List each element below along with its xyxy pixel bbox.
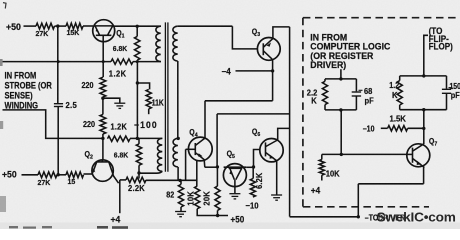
wire Q3 base drop [232, 26, 257, 49]
scan artifact left edge smudge 2 [0, 121, 3, 129]
junction base rail / RC1 [340, 153, 343, 156]
Q1 internal emitter slant with arrow [95, 26, 100, 35]
scan artifact top-left corner [3, 3, 6, 9]
transistor Q3 circle [257, 38, 280, 61]
transformer lower-left winding exit [157, 171, 163, 173]
Q3 collector arrowhead [267, 42, 271, 46]
wire RC2 bottom to node L to Q7 [423, 110, 425, 144]
wire node F to 15 [57, 174, 66, 176]
Q1 internal bar [96, 34, 112, 36]
wire runner node J to bus [217, 113, 290, 115]
junction node B (Q1 collector / 6.8K / xfmr) [136, 25, 139, 28]
transformer upper-right winding [173, 26, 178, 61]
wire node E to 11K [137, 83, 149, 89]
wire 15K to Q1 base [83, 25, 93, 27]
Q1 base chord [94, 25, 114, 27]
resistor 11K zigzag [146, 89, 151, 109]
capacitor 68pF leads [355, 79, 357, 110]
capacitor 2.5 plates [54, 104, 63, 107]
wire between 220 resistors [102, 97, 104, 115]
wire Q4 base riser [185, 149, 187, 180]
Q6 internal bar [265, 142, 267, 156]
resistor 27K (lower) zigzag [38, 172, 57, 178]
junction rail/Q1-emitter [102, 60, 105, 63]
transformer core line 1 [164, 22, 166, 171]
wire collector bus vertical [289, 27, 291, 217]
junction node C (220/Q2/input return) [101, 137, 104, 140]
resistor 220 (upper) zigzag [100, 77, 106, 97]
resistor 10K zigzag [195, 186, 200, 209]
wire 1.2K to transformer [133, 61, 161, 63]
wire flip-flop bracket [424, 35, 428, 76]
Q5 internal collector slant [236, 169, 242, 180]
junction rail/cap-chain [57, 60, 60, 63]
ground G3 (Q5 emitter) [229, 194, 240, 199]
resistor 1.2K (box) zigzag [397, 81, 402, 105]
resistor 82 zigzag [178, 184, 183, 207]
Q7 base lead [407, 153, 413, 155]
wire 15 to Q2 base [84, 173, 93, 175]
wire node B to transformer primary top [137, 25, 161, 27]
wire node J vertical [216, 114, 218, 167]
wire 2.2K to node I [146, 179, 197, 181]
junction 220s / ground stub [101, 97, 104, 100]
wire node D to lower-left winding [137, 137, 162, 139]
wire +50 to 27K lower [22, 174, 39, 176]
resistor 2.2K zigzag [126, 177, 146, 182]
junction node I (bias rail) [178, 179, 181, 182]
resistor 1.2K (second) zigzag [108, 136, 131, 141]
Q4 internal collector slant [196, 138, 206, 145]
wire +50 to R 27K [24, 25, 37, 27]
wire upper-right winding down to node H [177, 61, 179, 138]
wire 10K box bottom stub [321, 175, 323, 180]
junction rail/6.8K [136, 60, 139, 63]
Q5 internal emitter slant [230, 169, 235, 180]
junction node J (Q4 coll / Q5 base / 20K) [216, 165, 219, 168]
wire node G to 2.2K / corner to +4 [120, 179, 126, 181]
Q3 internal emitter slant [264, 51, 273, 59]
transistor Q2 circle [92, 160, 113, 181]
transistor Q4 circle [188, 137, 212, 161]
wire 220 lower to Q2 collector [102, 134, 104, 160]
transformer lower-left winding [158, 138, 163, 171]
resistor 6.2K zigzag [250, 179, 255, 197]
Q7 internal collector slant [413, 144, 424, 151]
wire 11K bottom stub to -100 [148, 109, 150, 114]
wire node K to 6.2K [252, 167, 254, 179]
Q6 emitter down to ground [276, 161, 278, 195]
transistor Q5 circle [223, 164, 246, 187]
resistor 220 (lower) zigzag [100, 115, 106, 135]
wire Q4 emitter down (to 10K) [196, 160, 198, 186]
Q3 internal collector slant [264, 39, 273, 47]
wire 20K bottom [217, 210, 219, 215]
Q6 internal emitter slant [266, 153, 277, 161]
wire Q4 collector up [204, 101, 206, 138]
Q4 emitter arrowhead [198, 153, 202, 157]
resistor 15K zigzag [66, 23, 83, 29]
resistor 1.2K (first) zigzag [111, 59, 133, 64]
resistor 2.2K (box) zigzag [322, 81, 327, 104]
wire node D chain vertical [136, 62, 138, 139]
wire node B down to 6.8K [136, 26, 138, 36]
wire 6.8K second to node G [138, 165, 140, 178]
transformer core line 2 [167, 22, 169, 171]
wire -4 lead [236, 70, 273, 72]
wire Q5 collector to node K [246, 166, 253, 168]
resistor 6.8K (first) zigzag [135, 36, 140, 60]
wire xfmr top to Q3 base [178, 25, 233, 27]
resistor 10K (box) zigzag [319, 160, 324, 176]
resistor 1.5K zigzag [388, 126, 408, 131]
junction node F (cap chain / base divider) [57, 173, 60, 176]
junction node G (6.8K/2.2K/winding) [137, 171, 140, 174]
Q7 emitter arrowhead [417, 161, 422, 165]
wire RC2 left lead [399, 76, 401, 81]
wire input return stub [3, 110, 103, 138]
wire Q3 collector up-over to bus [273, 27, 290, 39]
capacitor 150pF plates [442, 89, 451, 93]
wire RC1 top rail [325, 78, 356, 80]
resistor 20K zigzag [215, 186, 220, 210]
wire RC1 bottom stub down [340, 110, 342, 154]
junction 20K/+50 rail [216, 214, 219, 217]
wire 10K box corner [321, 154, 323, 159]
transistor Q1 circle [93, 20, 115, 42]
ground G4 (Q6 emitter) [271, 195, 282, 200]
wire RC2 top rail [400, 75, 447, 77]
transistor Q7 circle [407, 144, 430, 167]
junction node D (1.2K/6.8K/xfmr sec) [136, 137, 139, 140]
scan artifact left edge smudge 1 [0, 59, 3, 66]
wire RC1 left bottom lead [324, 105, 326, 110]
Q3 internal bar [262, 43, 264, 55]
resistor 6.8K (second) zigzag [136, 144, 141, 165]
junction RC2 top [422, 74, 425, 77]
wire node D down to 6.8K second [138, 138, 140, 144]
wire output drop [357, 184, 359, 217]
junction node H (secondary windings) [177, 137, 180, 140]
Q1 internal collector slant [108, 26, 113, 35]
capacitor 68pF plates [352, 92, 361, 96]
resistor 27K (top) zigzag [36, 23, 55, 29]
dashed computer-logic box [303, 18, 460, 207]
capacitor 150pF leads [446, 76, 448, 110]
junction node L (Q7 collector) [422, 127, 425, 130]
wire input rail (IN FROM winding top) [0, 61, 111, 63]
junction node A (27K/15K/cap chain) [56, 24, 59, 27]
Q5 emitter arrowhead [229, 171, 232, 175]
Q7 internal bar [412, 148, 414, 163]
wire 1.5K to node L [408, 127, 424, 129]
resistor 15 zigzag [66, 172, 84, 178]
Q4 internal emitter slant [196, 153, 205, 168]
junction RC1 bottom [339, 108, 342, 111]
wire emitter run left [358, 183, 423, 185]
ground G2 (under 82) [175, 212, 186, 217]
wire node I to 82 [180, 180, 182, 184]
Q1 emitter arrowhead [96, 28, 100, 32]
wire Q3 emitter vertical [272, 60, 274, 101]
wire lower-right winding to node I [177, 167, 179, 181]
junction node K (Q5 coll / Q6 base / 6.2K) [252, 165, 255, 168]
wire node G to lower-left winding bottom [139, 172, 157, 174]
wire node A down to cap 2.5 [57, 26, 59, 103]
wire -10 to 1.5K [381, 127, 388, 129]
wire RC2 bottom rail [400, 109, 447, 111]
junction output node [357, 215, 360, 218]
wire +4 riser [119, 180, 121, 213]
scan artifact bottom-left smudge [0, 196, 6, 212]
Q2 internal bar [96, 161, 110, 163]
wire Q7 base rail [322, 153, 407, 155]
Q4 base lead [186, 148, 196, 150]
wire Q1 emitter down to 220 (upper) [102, 35, 104, 77]
Q2 collector lead [101, 160, 103, 162]
Q2 emitter arrowhead [92, 168, 95, 173]
Q6 collector loop to bus [278, 128, 290, 140]
Q6 internal collector slant [266, 140, 278, 147]
tick at 68 label [359, 89, 363, 91]
wire driver stub down [340, 69, 342, 79]
wire 27K to 15K through node [55, 25, 67, 27]
junction -4 node [271, 69, 274, 72]
wire RC1 left lead [324, 79, 326, 81]
wire Q7 emitter down [423, 168, 425, 184]
Q2 internal emitter slant [93, 162, 97, 172]
wire cap 2.5 down to node F [57, 107, 59, 175]
wire node K up to Q6 base [254, 150, 260, 168]
wire bus bottom run to output node [290, 216, 359, 218]
transformer lower-right winding [173, 138, 178, 167]
Q7 internal emitter slant [413, 159, 425, 168]
Q5 internal bar [229, 167, 243, 169]
Q2 internal collector slant to out [109, 162, 119, 183]
ground G1 (between 220s) [114, 103, 125, 108]
wire Q4 collector loop to Q3 emitter [205, 100, 273, 102]
Q5 base chord [224, 166, 247, 168]
wire 1.2K second to node D [130, 137, 137, 139]
Q6 emitter arrowhead [270, 155, 275, 159]
wire 82 to ground [180, 207, 182, 211]
tick at 150 label [449, 87, 453, 89]
Q4 internal bar [194, 143, 196, 155]
junction RC1 top [339, 77, 342, 80]
ground stub between 220s [103, 98, 120, 103]
wire RC2 left bottom lead [399, 105, 401, 110]
wire RC1 bottom rail [325, 109, 356, 111]
junction RC2 bottom [422, 108, 425, 111]
wire 10K bottom to +50 rail [197, 209, 228, 216]
wire Q4 emitter to node J [205, 166, 218, 168]
wire Q1 collector to node B [114, 25, 137, 27]
junction node E (11K tap) [136, 81, 139, 84]
Q5 emitter down to ground [234, 180, 236, 194]
transistor Q6 circle [260, 139, 283, 162]
wire 20K top from node J [216, 167, 218, 186]
transformer primary upper-left winding [156, 26, 161, 61]
scan artifact bottom text remnants [9, 226, 128, 229]
